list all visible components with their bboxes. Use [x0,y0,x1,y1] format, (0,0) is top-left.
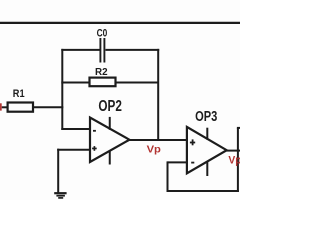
svg-text:Vpp: Vpp [228,155,240,167]
svg-text:OP2: OP2 [98,98,122,115]
svg-text:C0: C0 [97,27,108,39]
svg-text:R1: R1 [13,88,25,100]
svg-text:R2: R2 [95,67,108,78]
svg-text:Vp: Vp [147,145,161,156]
svg-text:OP3: OP3 [195,109,217,125]
